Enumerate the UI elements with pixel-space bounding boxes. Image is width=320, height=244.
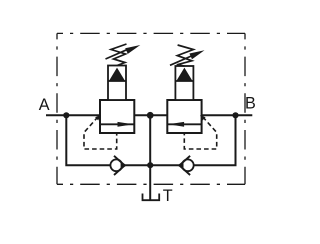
tank symbol — [143, 194, 160, 201]
relief valve RV1 pilot line (dashed) — [84, 117, 117, 149]
enclosure boundary left edge (dash-dot) — [56, 33, 58, 184]
relief valve RV2 body — [167, 100, 201, 133]
wire left branch down — [66, 115, 150, 165]
node A junction — [63, 112, 69, 118]
enclosure boundary right edge (dash-dot) — [244, 33, 246, 184]
relief valve RV2 spring — [177, 45, 194, 66]
relief valve RV1 body — [100, 100, 134, 133]
node center junction — [147, 112, 154, 119]
relief valve RV2 adjustment arrow — [170, 50, 205, 65]
check valve CV2 — [178, 156, 194, 175]
svg-text:A: A — [39, 96, 50, 114]
relief valve RV2 spring cap — [175, 66, 193, 100]
svg-text:T: T — [163, 187, 173, 205]
node T junction — [147, 162, 153, 168]
enclosure boundary top edge (dash-dot) — [57, 32, 245, 34]
relief valve RV2 pilot line (dashed) — [184, 117, 216, 149]
relief valve RV1 pilot arrowhead — [95, 115, 101, 120]
relief valve RV2 pilot arrowhead — [200, 115, 206, 120]
svg-text:B: B — [245, 94, 256, 112]
relief valve RV1 adjustment arrow — [106, 45, 141, 59]
check valve CV1 — [110, 156, 126, 175]
wire center vertical to tank — [149, 115, 151, 200]
wire A-B main line — [46, 114, 252, 116]
node B junction — [232, 112, 238, 118]
enclosure boundary bottom edge (dash-dot) — [57, 183, 245, 185]
relief valve RV1 spring — [111, 44, 127, 66]
relief valve RV1 spring cap — [108, 66, 126, 101]
wire right branch down — [150, 115, 235, 165]
